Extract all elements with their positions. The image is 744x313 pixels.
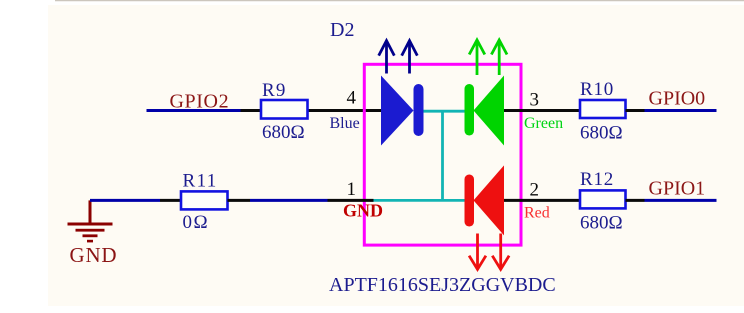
node GPIO0 wire bbox=[645, 109, 717, 112]
resistor R10 right pin wire bbox=[626, 109, 645, 112]
LED red emission arrow 1 bbox=[469, 234, 486, 270]
svg-text:R9: R9 bbox=[262, 80, 287, 101]
svg-text:680Ω: 680Ω bbox=[580, 123, 623, 144]
wire net to pin 1 bbox=[250, 199, 328, 202]
ground symbol bars bbox=[68, 223, 113, 243]
diode D2 body box bbox=[364, 64, 521, 245]
LED red anode triangle bbox=[474, 165, 505, 235]
resistor R12 right pin wire bbox=[626, 199, 645, 202]
LED red cathode bar bbox=[465, 175, 475, 227]
resistor R9 pin wires bbox=[241, 109, 262, 112]
resistor R11 right pin wire bbox=[228, 199, 251, 202]
svg-text:R10: R10 bbox=[580, 79, 614, 100]
wire internal cyan blue-green bbox=[424, 110, 465, 113]
LED green anode triangle bbox=[474, 76, 505, 146]
LED blue emission arrow 1 bbox=[379, 41, 395, 74]
resistor R11 bbox=[181, 191, 228, 209]
node GPIO2 wire bbox=[147, 109, 241, 112]
node GND net wire bbox=[90, 199, 160, 202]
pin 1 wire bbox=[328, 199, 374, 202]
svg-text:GPIO1: GPIO1 bbox=[649, 178, 706, 200]
svg-text:Green: Green bbox=[524, 115, 563, 132]
svg-text:Blue: Blue bbox=[330, 115, 360, 132]
wire internal cyan to red cathode bbox=[374, 199, 465, 202]
LED green cathode bar bbox=[465, 84, 475, 136]
sheet border line top bbox=[55, 0, 744, 2]
svg-text:680Ω: 680Ω bbox=[580, 213, 623, 234]
ground wire vertical stem bbox=[89, 200, 92, 222]
svg-text:R12: R12 bbox=[580, 169, 614, 190]
LED blue emission arrow 2 bbox=[402, 41, 418, 74]
svg-text:0Ω: 0Ω bbox=[183, 212, 210, 233]
svg-text:3: 3 bbox=[530, 90, 540, 111]
svg-text:4: 4 bbox=[347, 88, 357, 109]
svg-text:GND: GND bbox=[70, 243, 118, 267]
wire internal cyan vertical bbox=[441, 111, 444, 200]
LED red emission arrow 2 bbox=[492, 234, 509, 270]
LED blue anode triangle bbox=[381, 76, 414, 146]
pin 3 wire bbox=[504, 109, 580, 112]
svg-text:1: 1 bbox=[347, 179, 357, 200]
node GPIO1 wire bbox=[645, 199, 717, 202]
svg-text:R11: R11 bbox=[183, 171, 218, 192]
resistor R12 bbox=[580, 190, 626, 208]
svg-text:GPIO0: GPIO0 bbox=[649, 88, 706, 110]
svg-text:APTF1616SEJ3ZGGVBDC: APTF1616SEJ3ZGGVBDC bbox=[329, 274, 556, 296]
svg-text:GND: GND bbox=[343, 201, 383, 221]
resistor R10 bbox=[580, 100, 626, 118]
svg-text:2: 2 bbox=[530, 180, 540, 201]
svg-text:D2: D2 bbox=[330, 19, 354, 41]
resistor R9 bbox=[261, 100, 308, 119]
svg-text:680Ω: 680Ω bbox=[262, 122, 305, 143]
svg-text:Red: Red bbox=[524, 205, 550, 222]
LED blue cathode bar bbox=[414, 84, 424, 136]
LED green emission arrow 1 bbox=[469, 40, 485, 75]
resistor R11 left pin wire bbox=[160, 199, 181, 202]
svg-text:GPIO2: GPIO2 bbox=[170, 91, 230, 113]
pin 2 wire bbox=[504, 199, 580, 202]
LED green emission arrow 2 bbox=[491, 40, 507, 75]
